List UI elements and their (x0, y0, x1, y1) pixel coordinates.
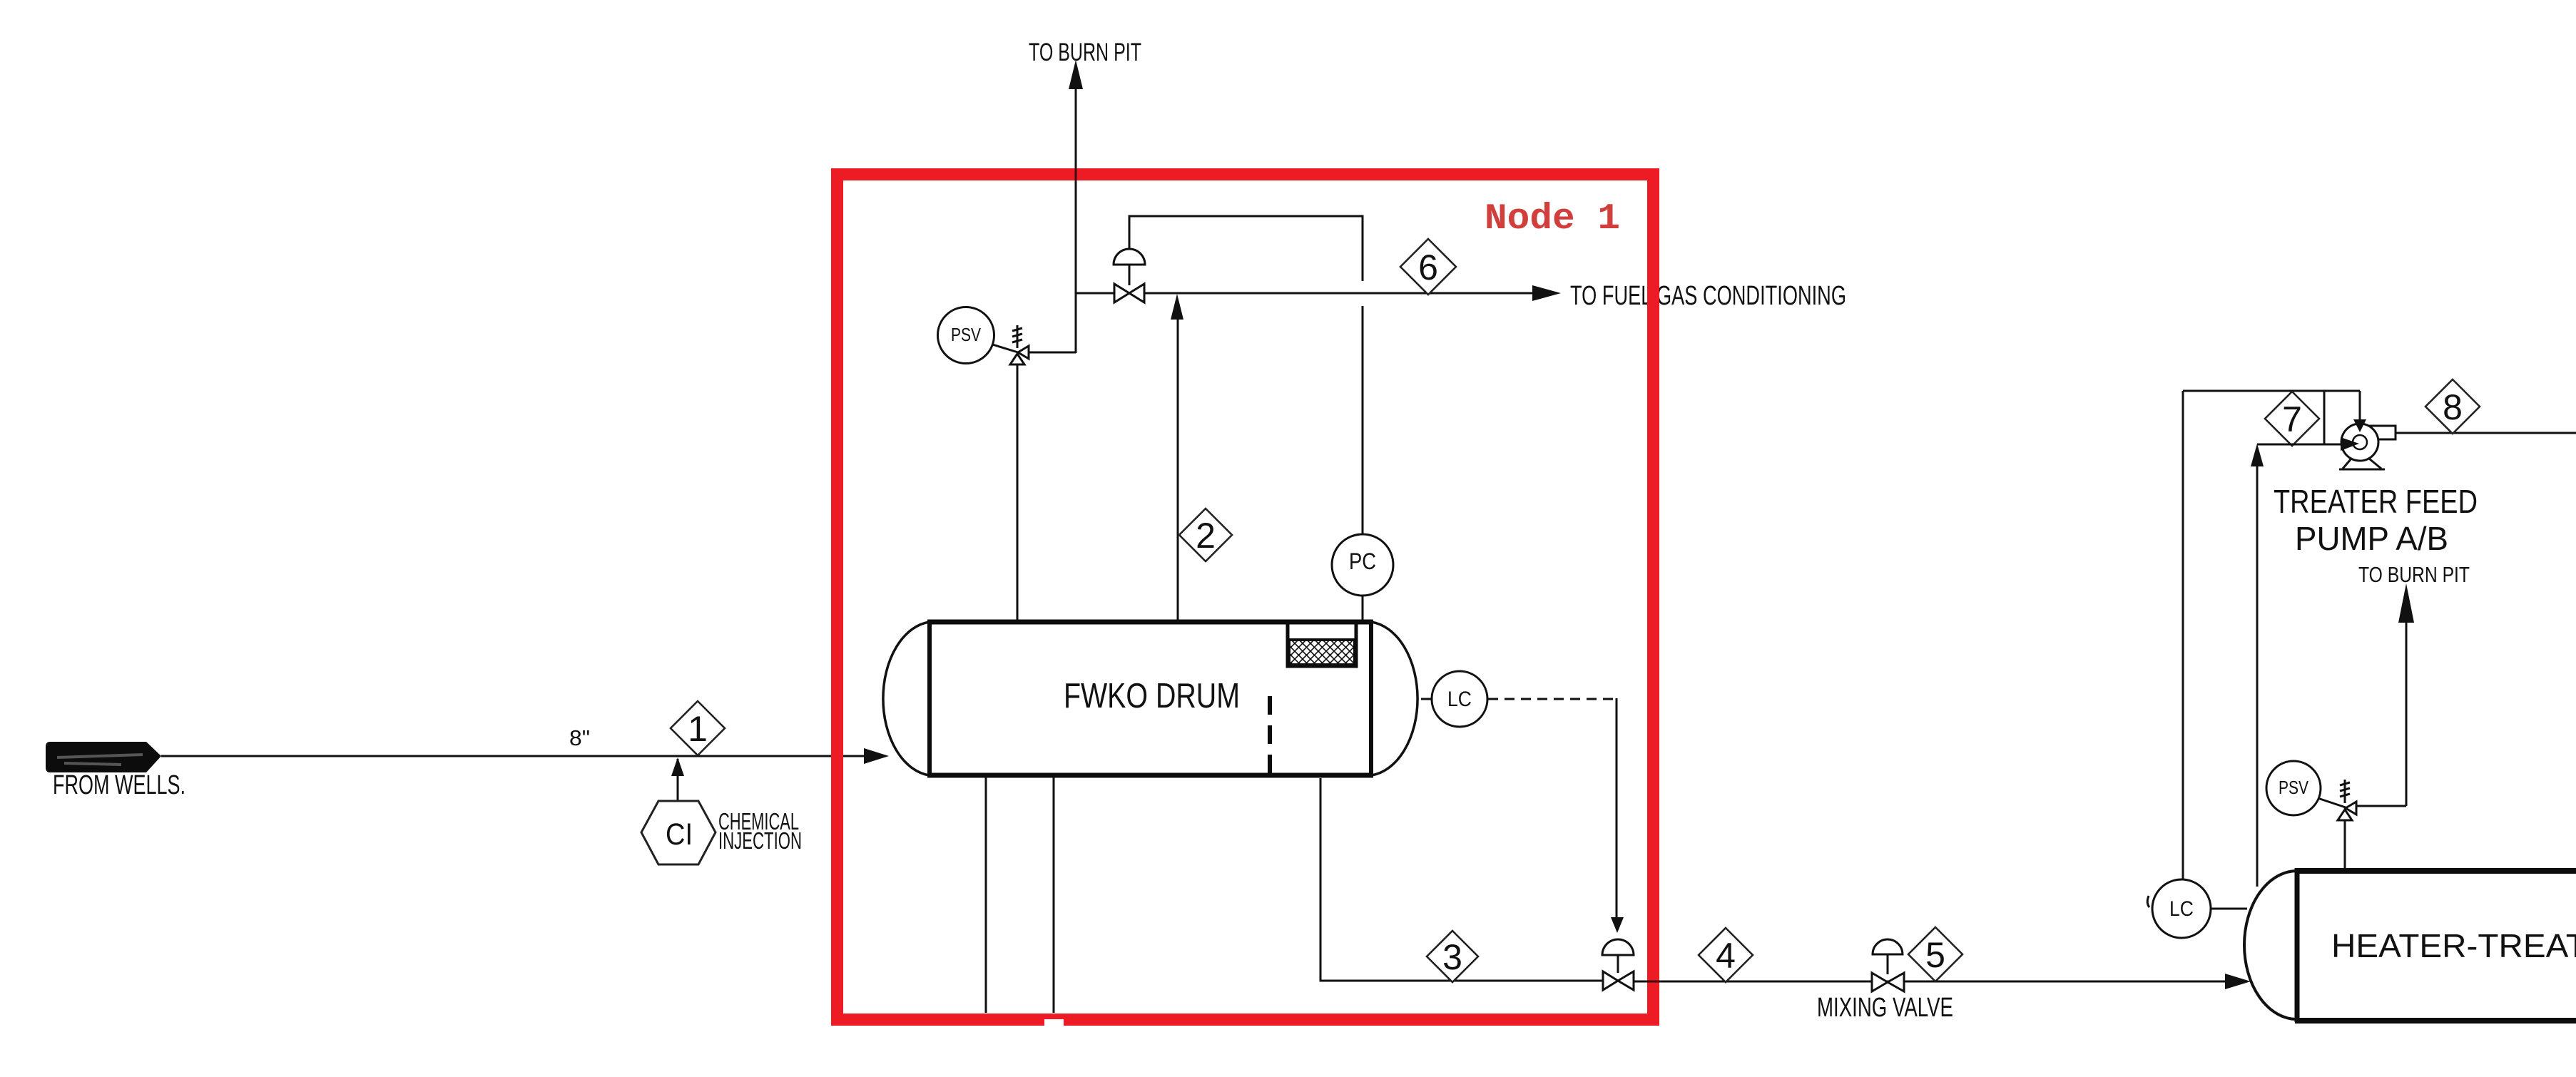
svg-text:8": 8" (569, 725, 590, 750)
relief valve PSV-1 body (1018, 346, 1029, 359)
instrument bubble PSV (treater) (2318, 798, 2346, 807)
wire: chemical injection line (677, 759, 679, 802)
drum support leg left (985, 777, 987, 1013)
svg-text:5: 5 (1925, 935, 1945, 975)
node 1 flag: diamond 5 (1908, 927, 1962, 981)
svg-text:4: 4 (1716, 936, 1736, 976)
wire: drop into pump with arrow (2359, 391, 2361, 422)
wire: treater relief to burn pit (2406, 622, 2408, 806)
svg-text:PUMP A/B: PUMP A/B (2295, 520, 2448, 557)
wire: relief inlet from treater top (2344, 820, 2346, 869)
wire: signal header above pump (2183, 390, 2360, 392)
node 1 flag: diamond 4 (1699, 928, 1753, 982)
control valve LCV body (1603, 971, 1618, 990)
control valve LCV diaphragm actuator (1617, 955, 1619, 973)
svg-text:TO FUEL GAS CONDITIONING: TO FUEL GAS CONDITIONING (1570, 281, 1846, 311)
svg-text:PC: PC (1349, 548, 1376, 574)
vessel heater-treater body (2295, 868, 2576, 874)
svg-text:2: 2 (1196, 516, 1216, 556)
wire: drum water outlet (1320, 778, 1603, 981)
svg-text:PSV: PSV (2279, 777, 2309, 798)
control valve PCV body (1114, 284, 1129, 302)
arrowhead: treater burn pit (2398, 583, 2414, 623)
wire: drum vapour outlet riser (1177, 320, 1179, 620)
arrowhead: signal to LCV (1611, 917, 1624, 933)
svg-text:3: 3 (1442, 937, 1462, 977)
interface level dashed mark inside drum (1268, 696, 1272, 777)
svg-text:8: 8 (2443, 387, 2463, 427)
svg-text:7: 7 (2282, 399, 2302, 439)
wire: relief outlet to burn pit header (1029, 352, 1076, 354)
svg-text:LC: LC (1447, 688, 1472, 711)
svg-text:FWKO DRUM: FWKO DRUM (1064, 677, 1240, 715)
svg-text:1: 1 (688, 709, 708, 749)
wire: suction riser from treater (2256, 465, 2259, 887)
arrowhead: to fuel gas conditioning (1532, 285, 1561, 301)
pig launcher / from-wells source symbol (46, 742, 161, 772)
svg-text:FROM WELLS.: FROM WELLS. (53, 770, 185, 800)
wire: PSV inlet riser from drum top (1017, 364, 1019, 620)
control valve PCV diaphragm actuator (1129, 265, 1131, 285)
node 1 flag: diamond 7 (2265, 392, 2319, 446)
instrument bubble PSV (FWKO) (990, 344, 1018, 352)
arrowhead: suction into pump (2341, 437, 2359, 451)
crossing: burn pit line through red frame (1075, 167, 1077, 182)
wire: drop at diamond 7 (2323, 391, 2326, 444)
wire: LC signal riser (2182, 391, 2184, 879)
node 1 boundary red box (838, 175, 1654, 1020)
arrowhead: suction riser up (2251, 444, 2264, 466)
wire: PC signal to valve actuator (1129, 216, 1363, 281)
wire: water line to heater-treater (1634, 981, 2226, 983)
hexagon CI chemical injection (641, 801, 716, 864)
wire: PC tap on drum top (1362, 596, 1364, 620)
wire: pump discharge (2396, 432, 2576, 434)
wire: inlet line from wells to FWKO drum (161, 755, 886, 757)
vessel FWKO drum body (927, 620, 1373, 625)
svg-text:LC: LC (2169, 897, 2194, 921)
vessel FWKO left head (883, 622, 930, 775)
arrowhead: LC signal into pump (2353, 419, 2366, 432)
white notch on red frame (1044, 1019, 1064, 1028)
arrowhead: chemical injection into line (671, 757, 684, 776)
wire: LC dashed signal (1488, 698, 1617, 700)
mixing valve body (1872, 973, 1888, 991)
instrument bubble LC (treater) (2152, 879, 2211, 938)
mixing valve diaphragm actuator (1887, 954, 1889, 974)
svg-text:HEATER-TREATER: HEATER-TREATER (2331, 927, 2576, 964)
arrowhead: to burn pit (1069, 60, 1083, 89)
node 1 flag: diamond 1 (671, 701, 725, 755)
relief valve PSV-2 body (2346, 802, 2356, 815)
drum support leg right (1053, 777, 1055, 1013)
node 1 flag: diamond 6 (1400, 239, 1456, 295)
arrowhead: into heater-treater (2225, 974, 2251, 989)
vessel heater-treater left head (2244, 871, 2297, 1019)
node 1 flag: diamond 3 (1427, 931, 1478, 982)
wire: burn pit riser (1075, 88, 1077, 353)
wire: pump suction (2257, 444, 2343, 446)
svg-text:CI: CI (666, 817, 693, 852)
pump treater feed pump A/B (2360, 426, 2396, 439)
node 1 flag: diamond 2 (1179, 509, 1232, 561)
crossing: water line through red frame (1646, 981, 1661, 983)
svg-text:PSV: PSV (951, 324, 982, 345)
vessel FWKO right head (1371, 622, 1417, 775)
svg-text:6: 6 (1418, 247, 1438, 287)
node 1 flag: diamond 8 (2425, 379, 2480, 434)
svg-text:TREATER FEED: TREATER FEED (2274, 483, 2478, 520)
svg-text:INJECTION: INJECTION (718, 827, 802, 854)
relief valve PSV-2 spring (2344, 780, 2346, 803)
wire: fuel gas header (1076, 292, 1532, 295)
svg-text:Node 1: Node 1 (1485, 199, 1620, 240)
mist eliminator pad (1288, 623, 1356, 666)
instrument bubble PC (1332, 534, 1393, 596)
arrowhead: vapour joins fuel gas header (1171, 294, 1183, 320)
svg-text:TO BURN PIT: TO BURN PIT (1029, 39, 1141, 66)
instrument bubble LC (FWKO) (1421, 698, 1432, 700)
svg-text:TO BURN PIT: TO BURN PIT (2358, 562, 2470, 587)
svg-text:MIXING VALVE: MIXING VALVE (1817, 993, 1953, 1023)
arrowhead: inlet into FWKO drum (864, 748, 889, 764)
wire: relief outlet to burn pit riser (2356, 805, 2406, 807)
relief valve PSV-1 spring (1017, 325, 1019, 348)
